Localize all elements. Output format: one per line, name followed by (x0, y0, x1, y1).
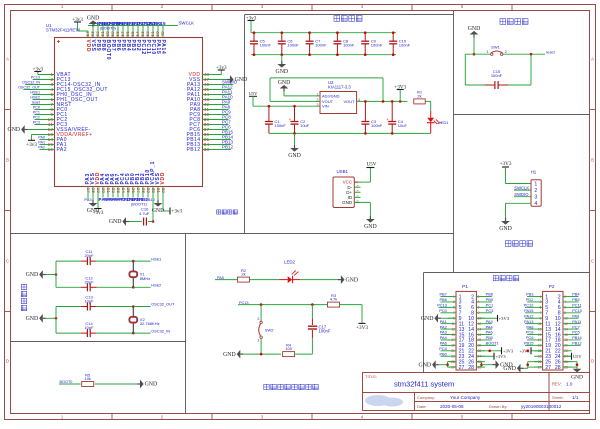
svg-text:PC7: PC7 (572, 324, 580, 329)
svg-text:GND: GND (223, 352, 236, 358)
svg-text:PA2: PA2 (38, 146, 45, 150)
svg-text:VIN: VIN (322, 104, 329, 109)
svg-text:LED1: LED1 (439, 120, 450, 125)
svg-text:PB12: PB12 (186, 147, 200, 153)
svg-text:10uF: 10uF (398, 123, 408, 128)
svg-text:PB10: PB10 (145, 197, 156, 202)
svg-text:PB5: PB5 (572, 297, 579, 302)
svg-text:KIA1117-3.3: KIA1117-3.3 (328, 85, 351, 90)
svg-text:GND: GND (8, 127, 21, 133)
svg-text:100nF: 100nF (287, 43, 299, 48)
svg-text:PB7: PB7 (439, 292, 446, 297)
svg-text:4.7uF: 4.7uF (139, 211, 150, 216)
svg-text:2k: 2k (417, 94, 421, 99)
svg-text:PC0: PC0 (33, 106, 40, 110)
svg-text:BOOT0: BOOT0 (60, 380, 73, 384)
svg-text:TITLE:: TITLE: (365, 374, 377, 379)
svg-text:PA15: PA15 (524, 308, 533, 313)
svg-text:Drawn By:: Drawn By: (489, 404, 507, 409)
svg-text:1: 1 (486, 50, 488, 54)
svg-text:PB15: PB15 (524, 341, 534, 346)
svg-text:10uF: 10uF (300, 123, 310, 128)
svg-text:GND: GND (468, 26, 481, 32)
svg-text:100nF: 100nF (399, 43, 411, 48)
svg-text:PB6: PB6 (439, 297, 446, 302)
svg-text:1: 1 (534, 181, 537, 187)
svg-text:+3v3: +3v3 (93, 210, 104, 216)
svg-text:VOUT: VOUT (343, 99, 355, 104)
svg-text:PC2: PC2 (33, 116, 40, 120)
svg-text:PA3: PA3 (440, 330, 447, 335)
svg-text:U5V: U5V (573, 354, 582, 359)
svg-text:yy20190503100012: yy20190503100012 (521, 404, 562, 409)
svg-text:GND: GND (346, 277, 359, 283)
svg-text:PC0: PC0 (439, 308, 447, 313)
svg-text:PB0: PB0 (486, 335, 494, 340)
svg-text:P2: P2 (549, 284, 555, 289)
svg-text:x: x (356, 190, 360, 192)
svg-text:GND: GND (87, 15, 100, 21)
svg-text:B: B (591, 158, 594, 163)
svg-text:PC5: PC5 (572, 330, 580, 335)
svg-text:20pF: 20pF (84, 253, 94, 258)
svg-text:2k: 2k (241, 272, 245, 277)
svg-text:HSE1: HSE1 (30, 91, 40, 95)
svg-text:B: B (6, 158, 9, 163)
svg-text:HSE2: HSE2 (30, 96, 40, 100)
svg-text:GND: GND (419, 362, 432, 368)
svg-text:100nF: 100nF (343, 43, 355, 48)
svg-text:+3V3: +3V3 (394, 84, 406, 90)
svg-text:10pF: 10pF (84, 325, 94, 330)
svg-text:PA12: PA12 (524, 313, 533, 318)
svg-text:32.768KHz: 32.768KHz (140, 321, 160, 326)
svg-text:100nF: 100nF (371, 43, 383, 48)
svg-text:reset: reset (32, 101, 40, 105)
svg-text:PA6: PA6 (440, 341, 447, 346)
svg-text:PB0: PB0 (439, 351, 447, 356)
svg-text:PA1: PA1 (440, 319, 447, 324)
svg-text:PA14: PA14 (160, 40, 166, 55)
svg-text:PC11: PC11 (572, 303, 581, 308)
svg-text:STM32F411RET6: STM32F411RET6 (46, 27, 81, 32)
svg-text:PB12: PB12 (222, 145, 234, 150)
svg-text:10k: 10k (84, 376, 90, 381)
svg-text:GND: GND (503, 366, 516, 372)
svg-text:2: 2 (505, 50, 507, 54)
svg-text:PC1: PC1 (486, 303, 494, 308)
svg-text:BOOT1: BOOT1 (486, 341, 499, 346)
svg-text:PA11: PA11 (572, 319, 581, 324)
svg-text:4.7k: 4.7k (330, 297, 338, 302)
svg-text:100nF: 100nF (315, 43, 327, 48)
svg-text:GND: GND (145, 382, 158, 388)
svg-text:+3V3: +3V3 (499, 316, 510, 321)
svg-text:REV:: REV: (552, 381, 562, 386)
svg-text:PA9: PA9 (572, 313, 579, 318)
svg-text:PA6: PA6 (486, 330, 493, 335)
svg-text:1.0: 1.0 (566, 381, 573, 386)
svg-text:stm32f411 system: stm32f411 system (394, 380, 454, 389)
svg-text:PA1: PA1 (38, 141, 45, 145)
svg-text:GND: GND (26, 316, 39, 322)
svg-text:GND: GND (364, 224, 377, 230)
svg-text:A: A (591, 57, 594, 62)
svg-text:C: C (591, 259, 594, 264)
svg-text:reset: reset (546, 49, 556, 54)
svg-text:HSE1: HSE1 (151, 256, 161, 261)
svg-text:Your Company: Your Company (450, 395, 481, 400)
svg-text:PB6: PB6 (486, 292, 493, 297)
svg-text:SW1: SW1 (491, 45, 500, 50)
svg-text:+3V3: +3V3 (356, 325, 368, 331)
svg-text:x: x (356, 195, 360, 197)
svg-text:1: 1 (257, 339, 259, 343)
svg-text:GND: GND (278, 80, 291, 86)
svg-text:PA4: PA4 (486, 324, 494, 329)
svg-text:1/1: 1/1 (572, 395, 579, 400)
svg-text:100nF: 100nF (260, 43, 272, 48)
svg-text:+3v3: +3v3 (216, 65, 227, 71)
svg-text:GND: GND (109, 219, 122, 225)
svg-text:+3v3: +3v3 (171, 209, 182, 215)
svg-text:SWCLK: SWCLK (514, 185, 529, 190)
svg-text:PC1: PC1 (33, 111, 40, 115)
svg-text:PA5: PA5 (217, 276, 224, 280)
svg-text:HSE2: HSE2 (151, 283, 161, 288)
svg-text:Sheet:: Sheet: (552, 395, 564, 400)
svg-text:PB4: PB4 (572, 292, 580, 297)
svg-text:PC13: PC13 (31, 76, 40, 80)
svg-text:100nF: 100nF (319, 329, 331, 334)
svg-text:U5V: U5V (249, 91, 259, 96)
svg-text:H1: H1 (531, 170, 537, 175)
svg-text:28: 28 (555, 365, 561, 371)
svg-text:28: 28 (468, 365, 474, 371)
svg-text:PA0: PA0 (38, 136, 45, 140)
svg-text:SW2: SW2 (265, 328, 274, 333)
svg-text:GND: GND (235, 77, 248, 83)
svg-text:PC13: PC13 (239, 301, 249, 305)
svg-text:+3v3: +3v3 (72, 17, 83, 23)
svg-text:PC12: PC12 (524, 303, 534, 308)
svg-text:27: 27 (459, 365, 465, 371)
svg-text:GND: GND (342, 200, 353, 205)
svg-text:PA2: PA2 (57, 147, 67, 153)
svg-text:LED2: LED2 (284, 260, 296, 265)
svg-text:+3V3: +3V3 (503, 349, 514, 354)
svg-text:100: 100 (285, 346, 292, 351)
svg-text:PB14: PB14 (572, 335, 582, 340)
svg-text:GND: GND (276, 69, 289, 75)
svg-text:100nF: 100nF (275, 123, 287, 128)
svg-text:+3v3: +3v3 (32, 66, 43, 72)
svg-text:PA2: PA2 (440, 324, 447, 329)
svg-text:U5V: U5V (366, 161, 376, 167)
svg-text:PC3: PC3 (33, 121, 40, 125)
svg-text:PA8: PA8 (526, 324, 533, 329)
svg-text:PA13: PA13 (524, 319, 533, 324)
svg-text:27: 27 (545, 365, 551, 371)
svg-text:PA3: PA3 (486, 319, 493, 324)
svg-text:GND: GND (288, 153, 301, 159)
svg-text:3: 3 (534, 195, 537, 201)
svg-text:x: x (356, 185, 360, 187)
svg-text:x: x (356, 200, 360, 202)
svg-text:C: C (6, 259, 9, 264)
svg-text:ADJ/GND: ADJ/GND (322, 93, 340, 98)
svg-text:GND: GND (571, 374, 583, 380)
svg-text:D: D (591, 359, 594, 364)
svg-text:2: 2 (534, 188, 537, 194)
svg-text:SWDIO: SWDIO (514, 192, 529, 197)
svg-text:+3V3: +3V3 (496, 354, 507, 359)
svg-text:2020-05-08: 2020-05-08 (440, 404, 464, 409)
svg-text:+3v3: +3v3 (246, 15, 257, 21)
svg-text:SWCLK: SWCLK (179, 21, 195, 26)
svg-text:GND: GND (26, 272, 39, 278)
svg-text:+3v3: +3v3 (26, 142, 37, 148)
svg-text:OSC32_IN: OSC32_IN (151, 328, 170, 333)
svg-text:PC8: PC8 (526, 330, 534, 335)
svg-text:100nF: 100nF (491, 73, 503, 78)
svg-text:PD2: PD2 (526, 297, 534, 302)
svg-text:OSC32_OUT: OSC32_OUT (18, 86, 41, 90)
svg-text:PB12: PB12 (572, 341, 582, 346)
svg-text:PB9: PB9 (486, 297, 493, 302)
svg-text:OSC32_IN: OSC32_IN (22, 81, 40, 85)
svg-text:PC13: PC13 (437, 303, 447, 308)
svg-text:2: 2 (257, 317, 259, 321)
svg-text:PC6: PC6 (526, 335, 534, 340)
svg-text:100nF: 100nF (371, 123, 383, 128)
svg-text:20pF: 20pF (84, 279, 94, 284)
svg-text:PC10: PC10 (572, 308, 583, 313)
svg-text:PC4: PC4 (439, 346, 447, 351)
svg-text:A: A (6, 57, 9, 62)
svg-text:GND: GND (421, 316, 434, 322)
svg-text:8MHz: 8MHz (140, 276, 150, 281)
svg-text:Date:: Date: (417, 404, 427, 409)
svg-text:D: D (6, 359, 9, 364)
svg-text:PA4: PA4 (440, 335, 448, 340)
svg-text:(BOOT0): (BOOT0) (100, 25, 116, 30)
svg-text:Company:: Company: (417, 395, 435, 400)
svg-text:USB1: USB1 (337, 169, 349, 174)
svg-text:OSC32_OUT: OSC32_OUT (151, 302, 175, 307)
svg-text:PB3: PB3 (526, 292, 533, 297)
svg-text:VDD: VDD (160, 172, 166, 185)
svg-text:GND: GND (152, 208, 165, 214)
svg-text:PC3: PC3 (486, 308, 494, 313)
svg-text:+3V3: +3V3 (500, 161, 512, 167)
svg-text:10pF: 10pF (84, 298, 94, 303)
svg-text:4: 4 (534, 201, 537, 207)
svg-text:GND: GND (499, 226, 512, 232)
svg-text:P1: P1 (462, 284, 468, 289)
